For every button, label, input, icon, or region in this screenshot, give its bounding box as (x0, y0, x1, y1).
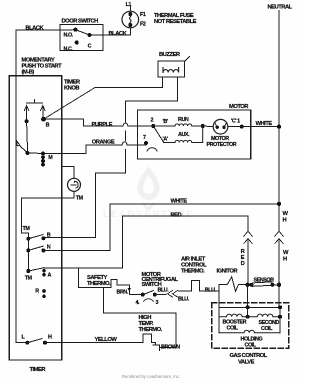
wire red down to gas valve (247, 285, 249, 308)
motor start switch blade (153, 126, 163, 142)
timer contact M dots (41, 152, 45, 167)
wire buzzer left lead (95, 77, 163, 87)
door switch blade (76, 30, 90, 35)
timer blade L to M (28, 152, 43, 154)
node timer contact B (41, 236, 45, 240)
svg-text:3: 3 (156, 300, 159, 306)
svg-text:VALVE: VALVE (238, 359, 255, 365)
wire mid junction link (247, 307, 249, 316)
timer motor TM circuit wires (62, 167, 74, 179)
svg-text:B: B (47, 233, 51, 239)
wire neutral vertical (278, 11, 280, 232)
node centrifugal contact left (141, 293, 145, 297)
svg-text:THERMO.: THERMO. (87, 281, 111, 287)
timer knob shaft line (44, 88, 96, 120)
label HIGH TEMP. THERMO. (139, 315, 163, 333)
svg-text:WHITE: WHITE (256, 121, 273, 127)
svg-text:TM: TM (23, 226, 31, 232)
centrifugal position arrows 4 and 3 (136, 299, 159, 306)
motor aux winding (164, 126, 203, 143)
red break feathers (244, 231, 252, 236)
label W H vertical (upper) (283, 211, 289, 224)
wire buzzer right lead (125, 77, 177, 122)
safety thermo arrow tick (128, 288, 132, 291)
svg-text:BLU.: BLU. (158, 288, 170, 294)
safety thermostat (79, 279, 130, 294)
label MOMENTARY PUSH TO START (M-B) (22, 58, 63, 76)
svg-text:BROWN: BROWN (161, 344, 180, 350)
node L1 terminal (129, 7, 131, 12)
svg-text:COIL: COIL (261, 326, 273, 332)
motor protector (213, 119, 228, 134)
svg-text:N.C.: N.C. (64, 46, 74, 52)
second coil (248, 314, 280, 317)
svg-text:TM: TM (25, 276, 33, 282)
label MOTOR CENTRIFUGAL SWITCH (142, 272, 179, 288)
wire neutral down to gas valve (278, 285, 280, 308)
node mid right (278, 315, 282, 319)
timer box (9, 76, 61, 360)
svg-text:RED: RED (171, 213, 182, 219)
timer blade to A (28, 268, 44, 271)
timer contact R dots (42, 289, 46, 298)
label W H vertical (lower) (283, 250, 289, 263)
svg-text:H: H (283, 257, 287, 263)
wire black from line to door switch (16, 30, 76, 140)
wire protector to C 1 terminal (203, 125, 214, 128)
sensor body (249, 282, 280, 287)
svg-text:RUN: RUN (178, 117, 189, 123)
timer contact T bar (26, 100, 42, 104)
svg-text:L1: L1 (126, 2, 132, 8)
svg-text:'C' 1: 'C' 1 (231, 118, 240, 124)
svg-text:AUX.: AUX. (178, 132, 190, 138)
high temp thermostat (143, 334, 156, 345)
wire red horizontal (123, 216, 249, 268)
door switch contact C (88, 33, 92, 37)
gas control valve dashed box (212, 303, 289, 349)
svg-text:BLACK: BLACK (109, 31, 128, 37)
node neutral junction at motor (277, 124, 281, 128)
door switch contact N.O. (74, 28, 78, 32)
ignitor element (219, 277, 247, 292)
svg-text:Rendered by LeadVenture, Inc.: Rendered by LeadVenture, Inc. (122, 374, 180, 379)
wire TM bottom lead to timer contact column (22, 191, 74, 238)
svg-text:COIL: COIL (245, 342, 257, 348)
node B knob contact (41, 117, 46, 122)
motor assembly box (138, 110, 251, 159)
wire purple from B to motor terminal 2 (44, 119, 124, 126)
svg-text:BLU.: BLU. (178, 297, 190, 303)
neutral break feathers (275, 231, 283, 236)
wire centrifugal to break arrow (155, 294, 166, 296)
svg-text:(M-B): (M-B) (22, 70, 35, 76)
node timer blade pivot 2 (26, 248, 30, 252)
svg-text:F1: F1 (140, 12, 146, 18)
node motor terminal 7 (144, 141, 148, 145)
label GAS CONTROL VALVE (230, 353, 268, 365)
label BOOSTER COIL (223, 319, 247, 331)
svg-text:COIL: COIL (227, 325, 239, 331)
node neutral junction mid (277, 202, 281, 206)
wire branch to safety thermostat (78, 268, 80, 287)
svg-text:TIMER: TIMER (30, 367, 47, 373)
wire from left contact down to L blade pivot (27, 121, 28, 153)
node timer contact N (41, 248, 45, 252)
label MOTOR PROTECTOR (207, 136, 237, 148)
svg-text:D: D (241, 261, 245, 267)
wire yellow from H to high temp thermo (45, 342, 143, 344)
timer contact T right arrow (41, 106, 45, 118)
svg-text:C: C (88, 43, 92, 49)
timer contact L tick (16, 140, 28, 153)
watermark flame logo (138, 166, 160, 212)
svg-text:N.O.: N.O. (64, 32, 74, 38)
orange crossover hump (122, 142, 127, 145)
gas valve left edge (218, 307, 220, 333)
holding coil (219, 330, 280, 333)
booster coil (219, 314, 247, 317)
svg-text:ORANGE: ORANGE (92, 139, 115, 145)
centrifugal blade (143, 291, 154, 295)
svg-text:SENSOR: SENSOR (254, 277, 275, 283)
wire white motor to neutral (242, 126, 279, 128)
door switch contact N.C. (75, 41, 79, 45)
svg-text:B: B (46, 123, 50, 129)
wire orange from M to motor terminal 7 (43, 145, 122, 154)
neutral break arrow (275, 239, 283, 244)
svg-text:PROTECTOR: PROTECTOR (207, 142, 237, 148)
buzzer (158, 57, 190, 78)
red break arrow (244, 239, 252, 244)
svg-text:4: 4 (136, 300, 139, 306)
node left arrow contact (25, 119, 29, 123)
gas valve coil circuit top wire (219, 306, 280, 308)
wire black from door switch to fuse (90, 28, 131, 35)
blade L to H (27, 339, 42, 343)
timer motor TM (68, 178, 81, 191)
label TIMER KNOB (64, 79, 81, 91)
yellow terminal bar (153, 344, 159, 346)
svg-text:GAS CONTROL: GAS CONTROL (230, 353, 268, 359)
label SECOND COIL (259, 320, 280, 332)
node centrifugal contact right (153, 293, 157, 297)
svg-text:BLACK: BLACK (25, 25, 44, 31)
node red-ignitor junction (245, 283, 249, 287)
svg-text:MOTOR: MOTOR (229, 104, 249, 110)
svg-text:DOOR SWITCH: DOOR SWITCH (62, 18, 99, 24)
timer blade to B (28, 235, 43, 239)
label HOLDING COIL (241, 336, 263, 348)
svg-text:F2: F2 (140, 22, 146, 28)
svg-text:7: 7 (143, 135, 146, 141)
node timer blade pivot 1 (26, 237, 30, 241)
node L blade pivot (26, 151, 30, 155)
svg-text:BLU.: BLU. (205, 288, 217, 294)
wire blu up to ignitor (218, 285, 220, 291)
wire brown loop from safety node (103, 287, 176, 347)
svg-text:NOT RESETABLE: NOT RESETABLE (154, 19, 197, 25)
svg-text:BRN.: BRN. (117, 289, 129, 295)
wire buzzer lead down with crossover humps (124, 131, 126, 140)
motor run winding (153, 124, 203, 126)
svg-text:NEUTRAL: NEUTRAL (268, 4, 293, 10)
svg-text:'B': 'B' (163, 119, 168, 125)
gas valve right edge (279, 307, 281, 333)
svg-text:R: R (35, 288, 39, 294)
blu break chevrons (168, 291, 178, 298)
svg-text:A: A (48, 273, 52, 279)
svg-text:THERMAL FUSE: THERMAL FUSE (154, 13, 194, 19)
svg-text:H: H (48, 335, 52, 341)
node 'C' 1 (240, 125, 244, 129)
svg-text:THERMO.: THERMO. (139, 327, 163, 333)
svg-text:TM: TM (76, 196, 84, 202)
svg-text:THERMO.: THERMO. (181, 269, 205, 275)
svg-text:KNOB: KNOB (64, 85, 79, 91)
purple crossover hump (123, 123, 128, 126)
node motor terminal 2 (151, 124, 155, 128)
door switch box (60, 25, 103, 51)
motor centrifugal actuator arc (147, 148, 157, 151)
timer low speed switch L-H (25, 341, 29, 345)
svg-text:BUZZER: BUZZER (159, 52, 181, 58)
node mid junction (246, 315, 250, 319)
svg-text:YELLOW: YELLOW (95, 337, 118, 343)
node valve top red (246, 305, 250, 309)
timer contact T left arrow (24, 106, 28, 120)
svg-text:WHITE: WHITE (171, 199, 188, 205)
thermal fuse F1-F2 (122, 11, 139, 28)
wire white down to contact N (43, 204, 110, 251)
node H (43, 341, 47, 345)
wire main line down to L (16, 140, 27, 343)
brown terminal bar (159, 345, 161, 351)
svg-text:2: 2 (151, 118, 154, 124)
node neutral-sensor junction (277, 283, 281, 287)
node run-aux junction (201, 124, 205, 128)
air inlet control thermostat (179, 281, 220, 292)
wire to centrifugal contact (129, 294, 143, 296)
wire red/A horizontal to timer contact A (44, 267, 123, 269)
svg-text:H: H (283, 218, 287, 224)
label AIR INLET CONTROL THERMO. (181, 257, 207, 275)
node valve top right (278, 305, 282, 309)
label R E D vertical (241, 249, 246, 267)
label THERMAL FUSE NOT RESETABLE (154, 13, 197, 25)
wire white mid horizontal (110, 203, 279, 205)
wire timer column (27, 239, 29, 271)
svg-text:PURPLE: PURPLE (92, 122, 113, 128)
wire blu down to gas valve (218, 291, 220, 307)
timer blade to N (28, 246, 43, 250)
label SAFETY THERMO. (87, 275, 111, 287)
svg-text:IGNITOR: IGNITOR (217, 268, 239, 274)
timer contact A dots (42, 269, 46, 277)
svg-text:N: N (47, 245, 51, 251)
node timer blade pivot 3 (26, 269, 30, 273)
